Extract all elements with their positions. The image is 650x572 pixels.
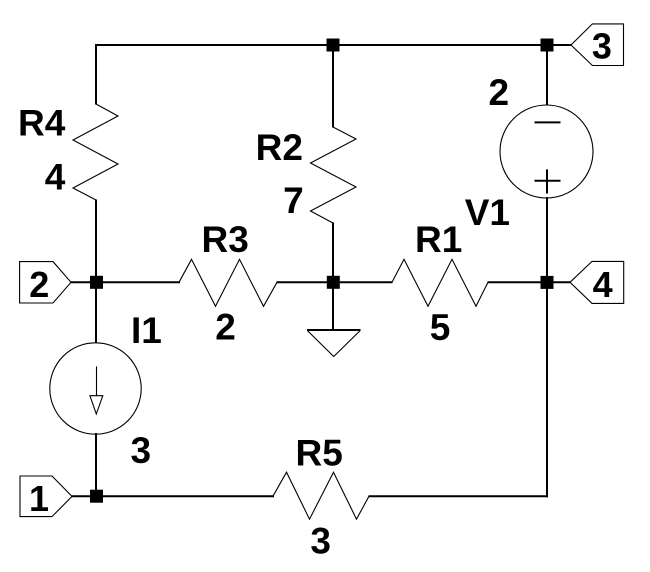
resistor R1 (392, 259, 488, 306)
I1 arrow head (90, 396, 103, 414)
junction top middle (327, 39, 340, 52)
current source I1 (50, 343, 141, 434)
wire left column mid (95, 200, 97, 345)
svg-text:I1: I1 (131, 310, 162, 351)
I1 arrow shaft (96, 366, 98, 395)
junction node 2 (90, 276, 103, 289)
svg-text:R3: R3 (202, 219, 249, 260)
wire node1 stub (72, 495, 97, 497)
wire mid column upper (332, 44, 334, 128)
node 1 tag (20, 476, 72, 517)
resistor R2 (311, 127, 357, 223)
wire mid column lower (332, 223, 334, 284)
voltage source V1 (500, 105, 593, 198)
svg-text:R5: R5 (296, 433, 343, 474)
svg-text:V1: V1 (465, 192, 510, 233)
resistor R5 (273, 472, 369, 519)
wire mid row center right (333, 281, 393, 283)
svg-text:3: 3 (131, 430, 152, 471)
V1 minus sign (535, 121, 561, 123)
svg-text:7: 7 (283, 180, 304, 221)
wire right column upper (546, 44, 548, 106)
wire left column lower (95, 433, 97, 497)
junction node 4 (541, 276, 554, 289)
svg-text:4: 4 (593, 264, 613, 305)
wire right column lower (546, 282, 548, 497)
wire node4 stub (547, 281, 570, 283)
wire mid row left (96, 281, 180, 283)
wire bottom row left (96, 495, 274, 497)
junction node 1 (90, 490, 103, 503)
wire mid row center left (277, 281, 335, 283)
ground symbol (307, 329, 361, 331)
wire ground stub (332, 281, 334, 330)
svg-text:2: 2 (29, 264, 49, 305)
V1 plus sign (535, 180, 561, 182)
svg-text:R4: R4 (18, 103, 66, 144)
resistor R4 (73, 104, 118, 200)
wire node3 stub (547, 44, 571, 46)
svg-text:3: 3 (310, 521, 331, 562)
junction middle (327, 276, 340, 289)
svg-text:1: 1 (29, 478, 49, 519)
node 3 tag (571, 24, 624, 66)
node 2 tag (20, 262, 71, 303)
wire node2 stub (71, 281, 97, 283)
svg-text:5: 5 (430, 307, 451, 348)
svg-text:2: 2 (489, 72, 510, 113)
wire mid row right (488, 281, 549, 283)
junction top right (541, 39, 554, 52)
wire left column upper (95, 44, 97, 105)
svg-text:R2: R2 (256, 127, 303, 168)
svg-text:3: 3 (592, 25, 612, 66)
wire right column mid (546, 197, 548, 283)
svg-text:2: 2 (215, 307, 236, 348)
svg-text:4: 4 (45, 156, 66, 197)
node 4 tag (570, 261, 624, 303)
resistor R3 (179, 259, 277, 306)
wire top horizontal (95, 44, 548, 46)
wire bottom row right (369, 495, 549, 497)
svg-text:R1: R1 (415, 219, 462, 260)
